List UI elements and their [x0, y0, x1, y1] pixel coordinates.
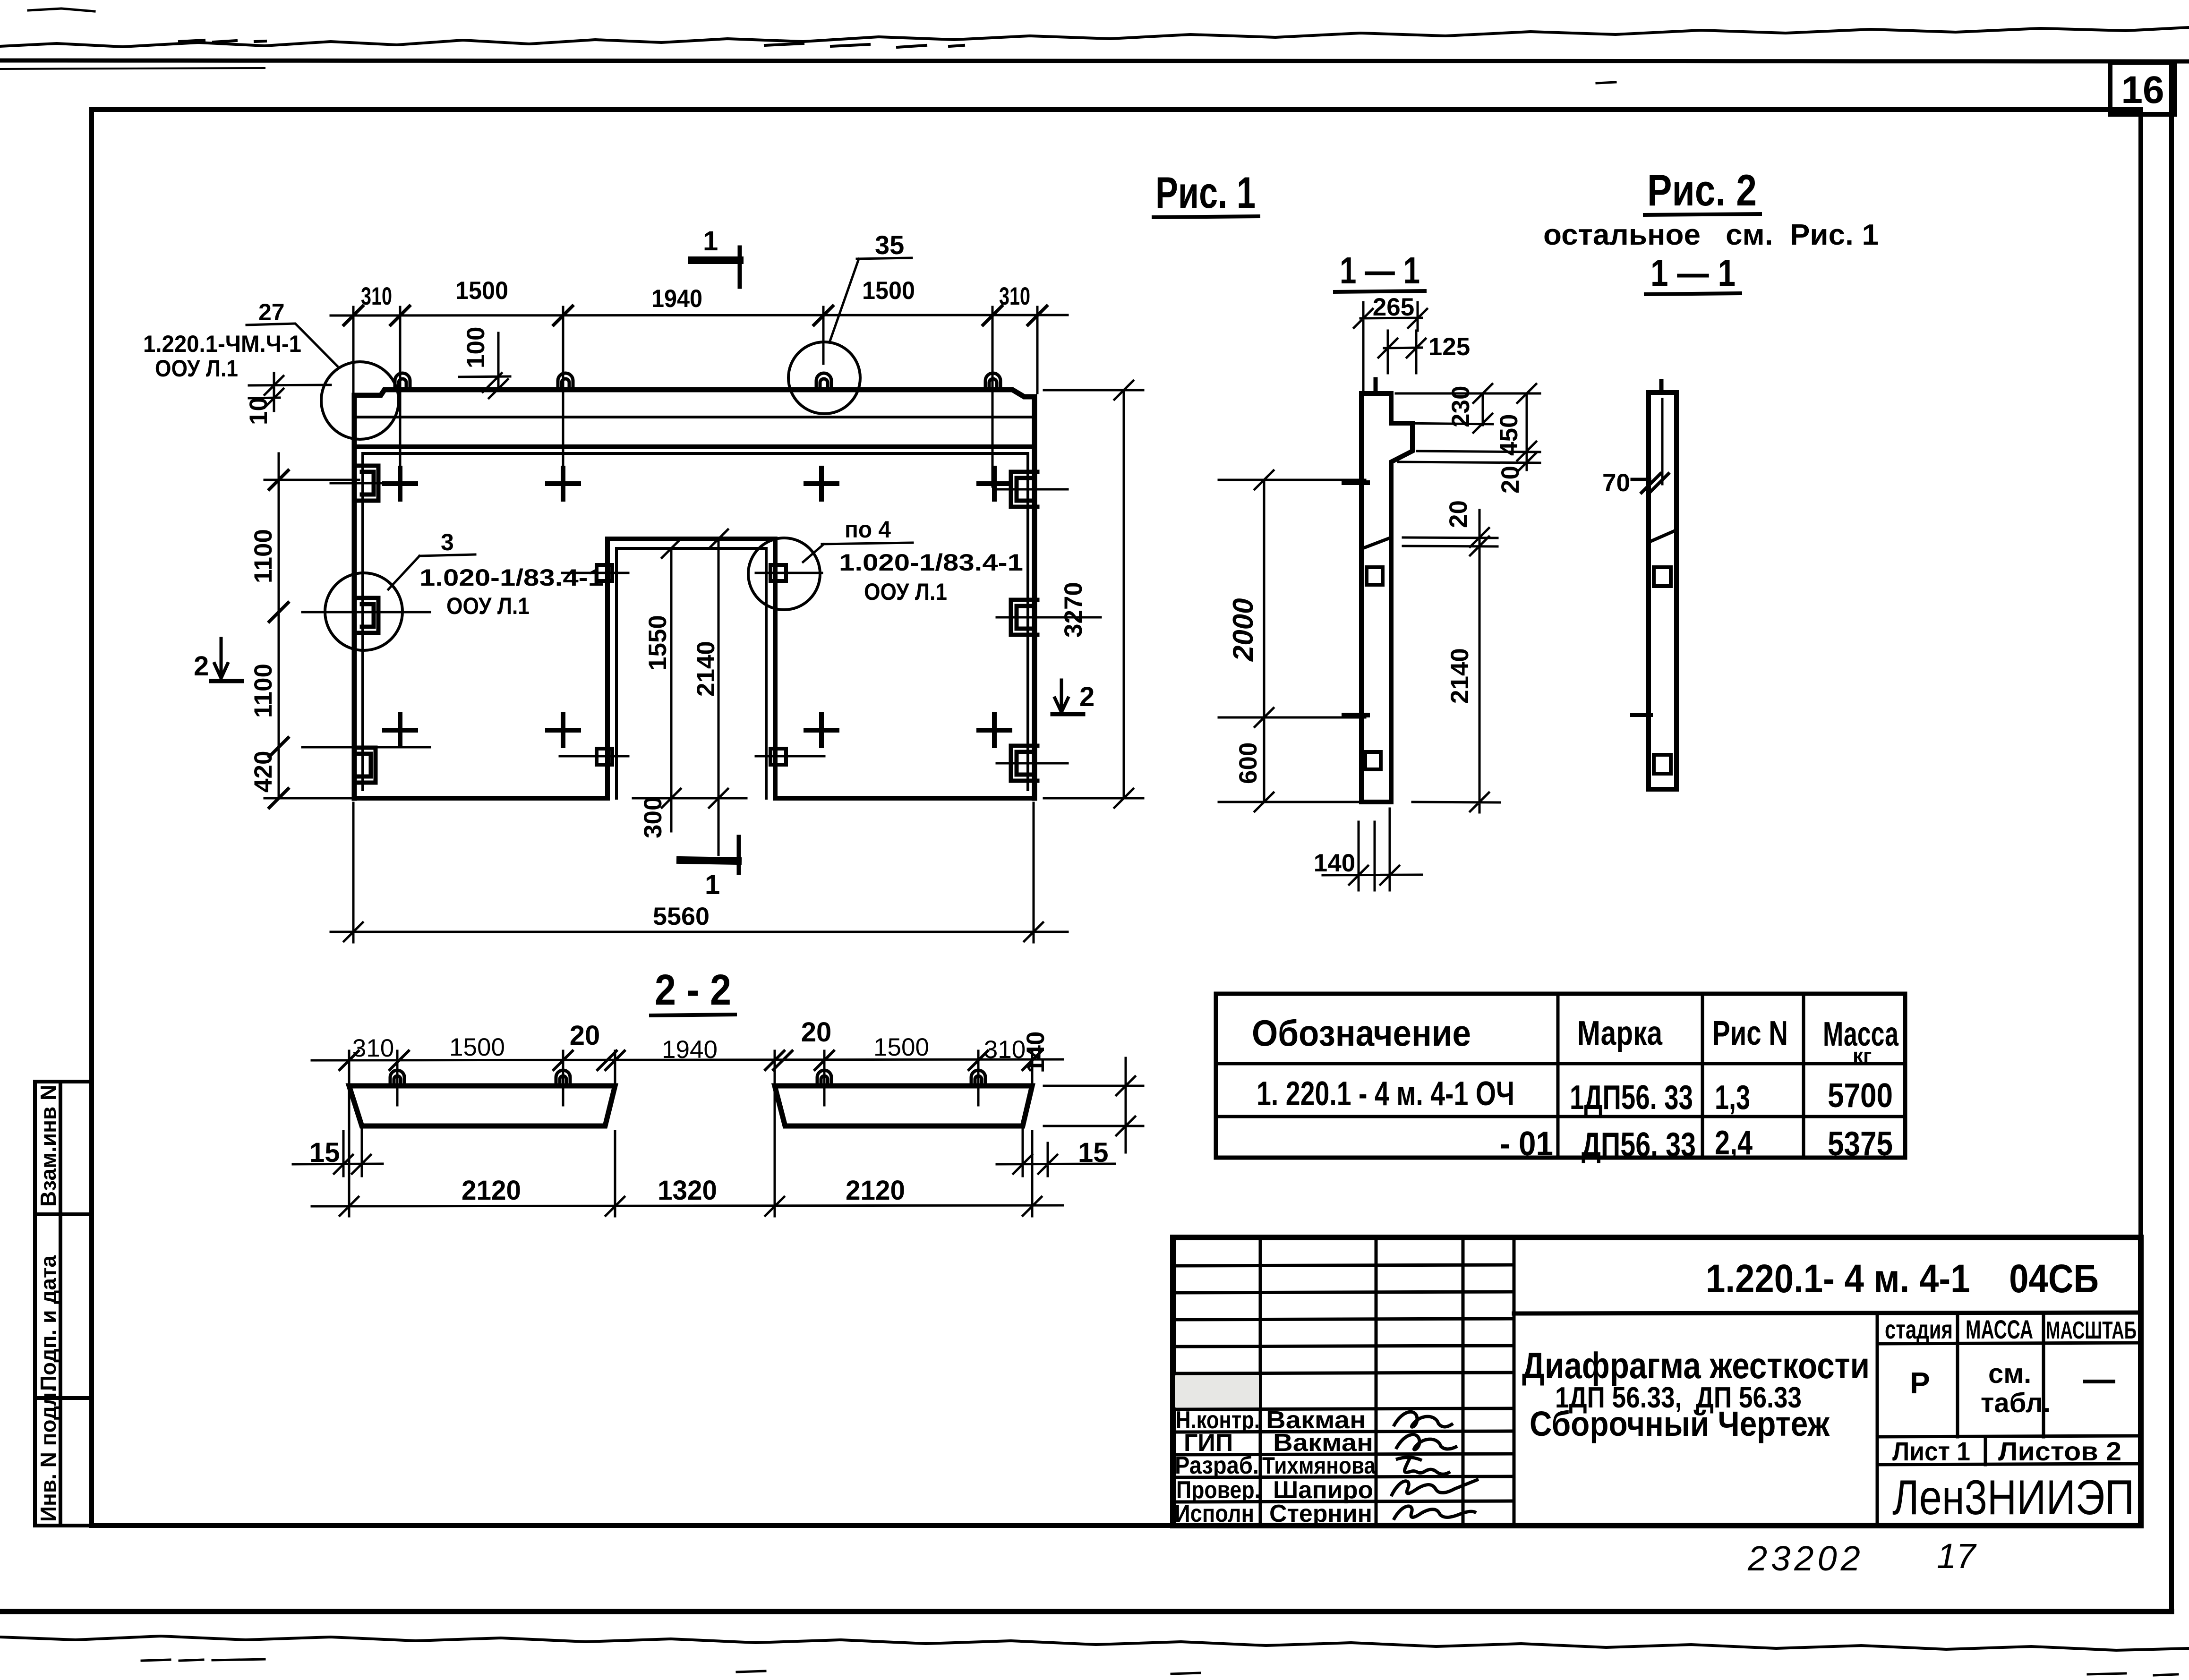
- heading Рис. 1: [0, 0, 0, 0]
- title block outer frame: [1173, 1237, 2141, 1526]
- svg-text:265: 265: [1373, 293, 1414, 321]
- svg-text:15: 15: [309, 1137, 340, 1168]
- table column line 2: [1701, 994, 1704, 1158]
- axis door left bottom embed: [560, 755, 628, 758]
- loop 2-2 c: [817, 1070, 831, 1086]
- panel beam outline: [354, 390, 1035, 397]
- embed door jamb right top: [770, 565, 786, 581]
- svg-text:Инв. N подл.: Инв. N подл.: [36, 1386, 60, 1522]
- svg-text:10: 10: [245, 397, 273, 425]
- svg-text:- 01: - 01: [1500, 1125, 1553, 1163]
- stamp mini grid: [1877, 1313, 2141, 1526]
- svg-text:1100: 1100: [249, 529, 277, 583]
- break diagonal right profile: [1649, 531, 1675, 542]
- svg-text:2000: 2000: [1227, 598, 1259, 662]
- svg-text:1.220.1-ЧМ.Ч-1: 1.220.1-ЧМ.Ч-1: [143, 331, 301, 357]
- outer right border vertical: [2169, 62, 2174, 1612]
- svg-text:по 4: по 4: [845, 516, 891, 543]
- wall left inner line: [361, 453, 364, 790]
- cross row2 c2: [547, 715, 579, 746]
- torn paper bottom edge: [0, 1636, 2189, 1650]
- svg-text:1.220.1- 4 м. 4-1 04СБ: 1.220.1- 4 м. 4-1 04СБ: [1706, 1256, 2099, 1301]
- left dim chain ticks: [269, 470, 288, 808]
- 2-2 dim 15 left: [293, 1129, 383, 1176]
- speckled cell: [1175, 1375, 1259, 1407]
- svg-text:3270: 3270: [1060, 582, 1087, 638]
- dim 2140 section: [1412, 546, 1500, 812]
- axis line through right bottom embed: [997, 762, 1068, 765]
- loop stub right profile: [1659, 381, 1664, 392]
- svg-text:1940: 1940: [651, 285, 702, 313]
- title cell divider under doc number: [1514, 1313, 2141, 1313]
- dim 450: [1417, 384, 1540, 461]
- section mark 2 right: [1055, 680, 1068, 712]
- door vertical dim 2140: [709, 529, 728, 855]
- cross row2 c1: [385, 715, 416, 746]
- cross row1 c2: [547, 468, 579, 499]
- table header row line: [1216, 1062, 1905, 1066]
- torn paper top edge: [0, 27, 2189, 47]
- profile break diagonal left: [1361, 537, 1391, 549]
- svg-text:300: 300: [639, 797, 667, 838]
- signature grid horizontals: [1173, 1265, 1514, 1502]
- svg-text:2140: 2140: [1446, 648, 1474, 704]
- page number box: [2110, 62, 2175, 114]
- svg-text:1. 220.1 - 4 м. 4-1 ОЧ: 1. 220.1 - 4 м. 4-1 ОЧ: [1257, 1075, 1514, 1113]
- svg-text:23202: 23202: [1747, 1539, 1864, 1578]
- svg-text:20: 20: [801, 1017, 832, 1048]
- dim 2000: [1219, 470, 1365, 727]
- top border line full width: [0, 60, 2189, 61]
- axis line through right mid embed: [997, 616, 1101, 619]
- svg-text:310: 310: [999, 282, 1030, 310]
- axis door right bottom embed: [756, 755, 824, 758]
- svg-text:16: 16: [2121, 68, 2164, 111]
- left dim chain line: [278, 453, 280, 798]
- svg-text:70: 70: [1602, 469, 1630, 497]
- svg-text:125: 125: [1428, 333, 1470, 361]
- svg-text:2140: 2140: [692, 641, 720, 697]
- embed square right profile lower: [1654, 755, 1671, 774]
- svg-text:2: 2: [1079, 682, 1094, 712]
- left margin boxes: [35, 1082, 92, 1526]
- wall top inner line: [363, 452, 1028, 455]
- svg-text:Взам.инв N: Взам.инв N: [36, 1085, 60, 1207]
- leader 3: [388, 554, 475, 589]
- svg-text:Рис. 2: Рис. 2: [1647, 165, 1757, 215]
- svg-text:Сборочный Чертеж: Сборочный Чертеж: [1530, 1404, 1830, 1443]
- svg-text:2120: 2120: [846, 1175, 905, 1206]
- loop stub left profile: [1374, 379, 1378, 393]
- cross row1 c3: [806, 468, 837, 499]
- leader 35: [830, 258, 912, 341]
- section mark 2 left: [214, 639, 228, 678]
- top dimension line: [331, 315, 1068, 316]
- loop 2-2 a: [390, 1070, 404, 1086]
- right dim 3270 line: [1044, 381, 1143, 808]
- embed square left profile upper: [1367, 567, 1383, 585]
- signature squiggle 1: [1394, 1412, 1453, 1427]
- lifting loop 1: [395, 373, 410, 390]
- embed plate right top: [1011, 472, 1037, 507]
- svg-text:1500: 1500: [873, 1033, 929, 1061]
- cross row1 c4: [979, 468, 1010, 499]
- svg-text:Разраб.: Разраб.: [1175, 1452, 1259, 1479]
- svg-text:Исполн: Исполн: [1175, 1500, 1254, 1527]
- svg-text:1100: 1100: [249, 664, 277, 718]
- embed door jamb right bottom: [770, 749, 786, 765]
- tick marks on left profile edge: [1344, 483, 1368, 715]
- wall bottom left segment: [354, 796, 607, 801]
- wall right inner line: [1026, 453, 1029, 790]
- svg-text:ООУ Л.1: ООУ Л.1: [155, 355, 238, 382]
- trapezoid slab left: [349, 1086, 615, 1126]
- svg-text:15: 15: [1078, 1137, 1109, 1168]
- svg-text:ДП56. 33: ДП56. 33: [1582, 1126, 1696, 1164]
- top dim ticks: [344, 306, 1047, 325]
- section mark 1 bottom: [680, 860, 738, 861]
- embed door jamb left bottom: [597, 749, 612, 765]
- svg-text:310: 310: [984, 1036, 1026, 1064]
- svg-text:1320: 1320: [658, 1175, 717, 1206]
- section 1-1 left profile outline: [1361, 393, 1412, 802]
- embed plate right mid: [1011, 600, 1037, 635]
- signature squiggle 3: [1396, 1457, 1450, 1474]
- svg-text:140: 140: [1022, 1032, 1050, 1073]
- cross row2 c4: [979, 715, 1010, 746]
- svg-text:1: 1: [705, 870, 720, 900]
- inner frame: [92, 110, 2141, 1526]
- svg-text:ООУ Л.1: ООУ Л.1: [446, 593, 530, 619]
- svg-text:230: 230: [1447, 386, 1475, 427]
- 2-2 dim 140 right: [1044, 1058, 1143, 1152]
- svg-text:Листов 2: Листов 2: [1998, 1436, 2121, 1466]
- section mark 1 top: [692, 256, 740, 264]
- svg-text:140: 140: [1314, 849, 1355, 877]
- svg-text:1500: 1500: [449, 1033, 505, 1061]
- dim 100 near loop2: [459, 333, 510, 398]
- stamp dash: [2083, 1380, 2115, 1383]
- signature squiggle 4: [1391, 1479, 1479, 1496]
- dim 20 lower: [1403, 510, 1497, 555]
- svg-text:100: 100: [462, 327, 490, 368]
- door opening inner line: [616, 548, 766, 798]
- svg-text:1: 1: [703, 226, 718, 256]
- beam lower line: [354, 416, 1035, 418]
- centerline below left profile: [1374, 822, 1376, 890]
- signature squiggle 5: [1394, 1506, 1476, 1520]
- bottom dim 5560: [331, 803, 1068, 942]
- svg-text:27: 27: [258, 299, 285, 325]
- callout circle left mid embed: [325, 573, 402, 650]
- svg-text:2 - 2: 2 - 2: [655, 966, 731, 1014]
- svg-text:Рис. 1: Рис. 1: [1155, 168, 1256, 217]
- svg-text:5375: 5375: [1828, 1125, 1893, 1163]
- svg-text:Тихмянова: Тихмянова: [1262, 1452, 1376, 1479]
- axis line through left bottom embed: [302, 746, 430, 749]
- svg-text:600: 600: [1234, 742, 1262, 784]
- svg-text:35: 35: [875, 230, 904, 260]
- svg-text:1 — 1: 1 — 1: [1340, 249, 1420, 291]
- svg-text:2120: 2120: [462, 1175, 521, 1206]
- table column line 1: [1556, 994, 1560, 1158]
- svg-text:20: 20: [1496, 466, 1524, 494]
- embed door jamb left top: [597, 565, 612, 581]
- loop 2-2 b: [556, 1070, 570, 1086]
- svg-text:Лен3НИИЭП: Лен3НИИЭП: [1892, 1470, 2134, 1525]
- dim 600: [1219, 717, 1365, 811]
- svg-text:20: 20: [1445, 500, 1472, 528]
- loop 2-2 d: [971, 1070, 985, 1086]
- 2-2 extension verticals top: [349, 1051, 1032, 1105]
- dim 140 bottom: [1323, 809, 1422, 890]
- embed square left profile lower: [1365, 752, 1381, 769]
- svg-text:остальное см. Рис. 1: остальное см. Рис. 1: [1543, 219, 1879, 251]
- svg-text:1 — 1: 1 — 1: [1650, 252, 1736, 294]
- 2-2 top dim ticks: [340, 1051, 1042, 1070]
- 2-2 dim 15 right: [997, 1129, 1115, 1176]
- svg-text:310: 310: [361, 282, 392, 310]
- wall right edge: [1032, 397, 1037, 798]
- trapezoid slab right: [775, 1086, 1032, 1126]
- svg-text:1940: 1940: [662, 1036, 718, 1064]
- axis line through door right embed: [756, 572, 822, 574]
- svg-text:1500: 1500: [862, 277, 915, 305]
- 2-2 top dim line: [312, 1059, 1063, 1060]
- wall left edge: [352, 395, 357, 798]
- svg-text:1500: 1500: [455, 277, 508, 305]
- top dim extension lines: [353, 307, 1037, 486]
- leader 27: [247, 324, 337, 366]
- table row line: [1216, 1115, 1905, 1118]
- bottom outer border: [0, 1609, 2172, 1614]
- svg-text:Диафрагма жесткости: Диафрагма жесткости: [1522, 1345, 1870, 1386]
- leader по4: [803, 543, 913, 562]
- axis line through door left embed: [562, 572, 628, 574]
- svg-text:Марка: Марка: [1577, 1015, 1663, 1052]
- embed plate left top: [358, 466, 378, 501]
- svg-text:МАССА: МАССА: [1966, 1314, 2033, 1344]
- svg-text:кг: кг: [1853, 1044, 1872, 1067]
- axis line through left mid embed: [302, 611, 430, 614]
- svg-text:Р: Р: [1910, 1366, 1930, 1400]
- embed plate left mid: [358, 598, 378, 633]
- embed plate right bottom: [1011, 746, 1037, 781]
- signature squiggle 2: [1396, 1434, 1457, 1450]
- svg-text:Рис N: Рис N: [1712, 1015, 1788, 1052]
- wall bottom right segment: [775, 796, 1035, 801]
- beam bottom thick line: [354, 444, 1035, 449]
- svg-text:2: 2: [194, 651, 209, 682]
- cross row1 c1: [385, 468, 416, 499]
- axis line through right top embed: [997, 488, 1068, 491]
- svg-text:Лист 1: Лист 1: [1892, 1436, 1970, 1466]
- door opening outline: [607, 539, 775, 798]
- svg-text:МАСШТАБ: МАСШТАБ: [2046, 1317, 2137, 1344]
- svg-text:Подп. и дата: Подп. и дата: [36, 1255, 60, 1391]
- lifting loop 3: [816, 373, 831, 390]
- svg-text:17: 17: [1937, 1536, 1977, 1576]
- lifting loop 2: [558, 373, 573, 390]
- signature grid verticals: [1260, 1237, 1514, 1526]
- svg-text:Обозначение: Обозначение: [1252, 1012, 1471, 1054]
- svg-text:1.020-1/83.4-1: 1.020-1/83.4-1: [839, 549, 1023, 576]
- axis line through left top embed: [331, 482, 392, 485]
- svg-text:1550: 1550: [644, 615, 672, 671]
- tick on right profile edge: [1632, 713, 1651, 717]
- svg-text:ООУ Л.1: ООУ Л.1: [864, 579, 947, 605]
- left dim chain extensions: [265, 480, 359, 798]
- callout circle loop 3: [788, 342, 860, 414]
- table column line 3: [1802, 994, 1805, 1158]
- 2-2 bottom dim line: [312, 1197, 1063, 1216]
- svg-text:5560: 5560: [653, 903, 710, 930]
- svg-text:310: 310: [352, 1034, 394, 1062]
- dim 265: [1354, 302, 1427, 392]
- table frame: [1216, 994, 1905, 1158]
- dim 70 marks: [1632, 474, 1668, 493]
- cross row2 c3: [806, 715, 837, 746]
- svg-text:20: 20: [570, 1020, 600, 1051]
- 2-2 bottom dim extensions: [349, 1091, 1032, 1216]
- svg-text:1.020-1/83.4-1: 1.020-1/83.4-1: [419, 564, 604, 591]
- dim 20 upper: [1398, 452, 1540, 472]
- svg-text:табл.: табл.: [1981, 1388, 2051, 1418]
- svg-text:3: 3: [441, 529, 454, 555]
- section 1-1 right profile outline: [1649, 392, 1676, 789]
- svg-text:2,4: 2,4: [1715, 1124, 1753, 1162]
- embed plate left bottom: [355, 748, 376, 783]
- lifting loop 4: [985, 373, 1000, 390]
- svg-text:стадия: стадия: [1885, 1314, 1953, 1344]
- dim 300 ticks on bottom: [633, 789, 746, 808]
- dim 230: [1396, 384, 1540, 433]
- svg-text:450: 450: [1495, 414, 1523, 456]
- callout circle door jamb right: [748, 538, 820, 610]
- svg-text:Стернин: Стернин: [1269, 1500, 1372, 1527]
- svg-text:420: 420: [249, 751, 277, 793]
- dim 125: [1378, 331, 1426, 373]
- inner line right profile: [1661, 399, 1664, 484]
- door vertical dim 1550: [662, 539, 681, 831]
- svg-text:5700: 5700: [1828, 1077, 1893, 1115]
- embed square right profile upper: [1654, 567, 1671, 586]
- svg-text:1ДП56. 33: 1ДП56. 33: [1570, 1079, 1693, 1117]
- svg-text:1,3: 1,3: [1715, 1079, 1750, 1117]
- callout circle 27 top-left corner: [321, 362, 399, 439]
- svg-text:см.: см.: [1988, 1358, 2031, 1389]
- dim 10 at corner: [249, 373, 331, 411]
